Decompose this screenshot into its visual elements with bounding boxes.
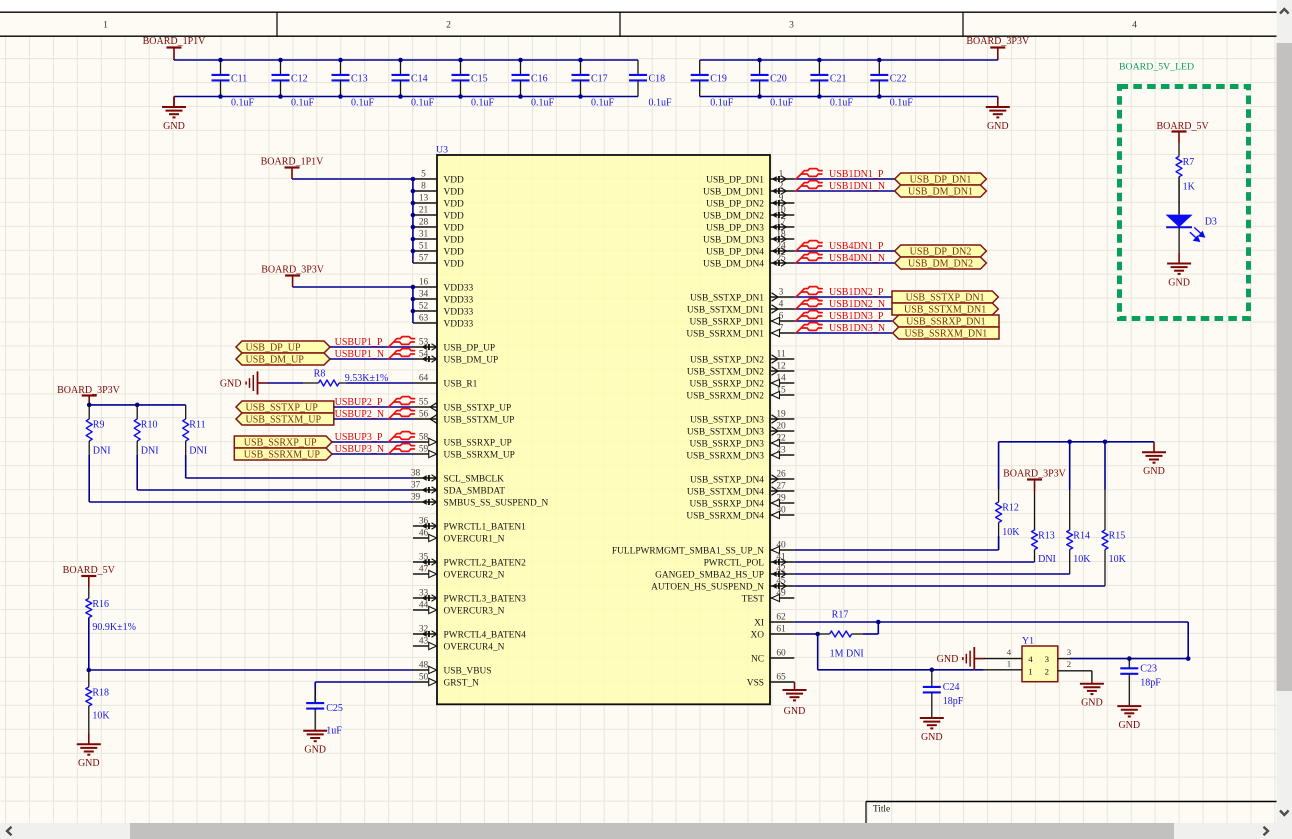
svg-text:USB1DN1_P: USB1DN1_P (829, 169, 884, 180)
net label USBUP1_N (335, 349, 384, 360)
diff pair marker USB1DN3_N (796, 323, 822, 333)
wire top rail cap bank 2 (700, 59, 998, 60)
power port BOARD_3P3V (U3 VDD33) (285, 276, 300, 288)
dashed section box BOARD_5V_LED (1120, 87, 1249, 319)
crystal Y1 (1022, 635, 1058, 681)
svg-text:BOARD_5V_LED: BOARD_5V_LED (1119, 62, 1194, 73)
svg-text:52: 52 (419, 301, 429, 311)
junction dots C20 (757, 58, 762, 99)
svg-text:GANGED_SMBA2_HS_UP: GANGED_SMBA2_HS_UP (655, 570, 764, 580)
svg-text:VSS: VSS (747, 678, 764, 688)
net label USB4DN1_P (829, 241, 884, 252)
svg-text:USB_SSRXM_DN1: USB_SSRXM_DN1 (904, 328, 987, 339)
svg-text:PWRCTL4_BATEN4: PWRCTL4_BATEN4 (444, 630, 527, 640)
port USB_SSRXP_UP (234, 436, 332, 448)
pin 1 USB_DP_DN1 (U3 right) (706, 169, 794, 185)
svg-text:SDA_SMBDAT: SDA_SMBDAT (444, 486, 506, 496)
svg-text:10K: 10K (1109, 554, 1127, 565)
junction dots C12 (278, 58, 283, 99)
resistor R8 9.53K (303, 369, 388, 386)
op-amp U3 body (436, 145, 770, 705)
svg-text:USB_DP_DN4: USB_DP_DN4 (706, 247, 764, 257)
svg-text:USB_SSRXP_UP: USB_SSRXP_UP (444, 438, 512, 448)
svg-text:59: 59 (419, 444, 429, 454)
ground GND (bar style, Y1 pin 4) (937, 647, 985, 670)
ground GND (cap bank 2) (986, 97, 1010, 132)
svg-text:62: 62 (776, 612, 786, 622)
pin 55 USB_SSTXP_UP (U3 left) (413, 397, 511, 413)
port USB_DP_UP (236, 341, 330, 353)
svg-text:USB_SSTXP_DN2: USB_SSTXP_DN2 (690, 355, 764, 365)
svg-text:58: 58 (419, 432, 429, 442)
resistor R9 DNI (86, 405, 110, 457)
svg-text:VDD33: VDD33 (444, 307, 474, 317)
svg-text:USBUP1_N: USBUP1_N (335, 349, 384, 360)
svg-text:26: 26 (776, 469, 786, 479)
resistor R18 10K (86, 670, 111, 744)
svg-text:C22: C22 (890, 74, 907, 85)
pin 56 USB_SSTXM_UP (U3 left) (413, 409, 514, 425)
pin 2 USB_DM_DN1 (U3 right) (703, 181, 794, 197)
pin 41 PWRCTL_POL (U3 right) (704, 552, 795, 568)
diff pair marker USB4DN1_P (796, 241, 822, 251)
svg-text:R15: R15 (1109, 531, 1126, 542)
junction dots C22 (877, 58, 882, 99)
svg-text:XO: XO (750, 630, 764, 640)
pin 45 AUTOEN_HS_SUSPEND_N (U3 right) (651, 576, 794, 592)
pin 53 USB_DP_UP (U3 left) (413, 337, 495, 353)
svg-text:C18: C18 (649, 74, 666, 85)
power port BOARD_3P3V (strap R13) (1027, 480, 1042, 492)
svg-text:GND: GND (784, 706, 806, 717)
svg-text:0.1uF: 0.1uF (291, 98, 315, 109)
svg-text:USB_SSTXM_UP: USB_SSTXM_UP (246, 414, 322, 425)
junction dots C14 (398, 58, 403, 99)
diff pair marker USB1DN3_P (796, 311, 822, 321)
wire USB1DN2_P (794, 296, 892, 298)
diff pair marker USB1DN1_P (796, 169, 822, 179)
net label USB1DN3_P (829, 311, 884, 322)
svg-text:USB_DM_DN4: USB_DM_DN4 (703, 259, 764, 269)
capacitor C15 0.1uF (452, 60, 495, 109)
wire R16 to USB_VBUS pin 48 (89, 618, 413, 670)
pin 48 USB_VBUS (U3 left) (413, 660, 491, 676)
wire bottom rail cap bank 2 (700, 96, 998, 98)
resistor R15 10K (1102, 490, 1127, 587)
svg-text:21: 21 (419, 205, 429, 215)
wire strap top rail to GND (999, 442, 1154, 490)
pin 13 VDD (U3 left) (413, 193, 464, 209)
pin 14 USB_SSRXP_DN2 (U3 right) (689, 373, 794, 389)
pin 63 VDD33 (U3 left) (413, 313, 473, 329)
title block (866, 802, 1277, 824)
svg-text:USB_DP_DN2: USB_DP_DN2 (706, 199, 764, 209)
svg-text:VDD33: VDD33 (444, 319, 474, 329)
svg-text:C14: C14 (411, 74, 428, 85)
svg-text:BOARD_5V: BOARD_5V (1156, 121, 1209, 132)
power port BOARD_3P3V (top-right) (966, 36, 1030, 59)
svg-text:PWRCTL_POL: PWRCTL_POL (704, 558, 765, 568)
wire BOARD_3P3V pullup rail (89, 404, 186, 406)
svg-text:BOARD_3P3V: BOARD_3P3V (57, 385, 121, 396)
svg-text:USB_DM_DN2: USB_DM_DN2 (908, 258, 973, 269)
svg-text:SCL_SMBCLK: SCL_SMBCLK (444, 474, 505, 484)
net label USB1DN2_P (829, 287, 884, 298)
svg-text:1K: 1K (1183, 181, 1196, 192)
svg-text:VDD33: VDD33 (444, 283, 474, 293)
pin 5 VDD (U3 left) (413, 169, 464, 185)
svg-text:10K: 10K (1073, 554, 1091, 565)
net label USBUP1_P (335, 337, 383, 348)
diff pair marker USB1DN2_P (796, 287, 822, 297)
svg-text:SMBUS_SS_SUSPEND_N: SMBUS_SS_SUSPEND_N (444, 498, 549, 508)
pin 50 GRST_N (U3 left) (413, 672, 479, 688)
svg-text:1uF: 1uF (326, 726, 342, 737)
svg-text:USBUP1_P: USBUP1_P (335, 337, 383, 348)
junction dots C13 (338, 58, 343, 99)
junction dots C16 (518, 58, 523, 99)
svg-text:16: 16 (419, 277, 429, 287)
svg-text:63: 63 (419, 313, 429, 323)
pin 22 USB_SSRXP_DN3 (U3 right) (689, 433, 794, 449)
wire USB4DN1_P (794, 250, 894, 252)
junction dots C15 (458, 58, 463, 99)
svg-text:VDD: VDD (444, 187, 465, 197)
pin 37 SDA_SMBDAT (U3 left) (411, 480, 505, 496)
ground GND (VSS pin 65) (783, 682, 807, 717)
svg-text:2: 2 (446, 20, 451, 31)
wire R13 to pin 41 (794, 561, 1034, 563)
pin 6 USB_SSRXP_DN1 (U3 right) (689, 311, 794, 327)
svg-text:USB_SSTXM_DN1: USB_SSTXM_DN1 (687, 305, 764, 315)
svg-text:USB_DM_UP: USB_DM_UP (246, 354, 305, 365)
svg-text:D3: D3 (1205, 217, 1217, 228)
svg-text:18pF: 18pF (1140, 677, 1161, 688)
capacitor C24 18pF (923, 670, 964, 718)
port USB_SSRXM_DN1 (893, 327, 999, 339)
svg-text:R11: R11 (189, 420, 205, 431)
svg-text:10K: 10K (1002, 527, 1020, 538)
svg-text:USB_SSTXM_DN4: USB_SSTXM_DN4 (687, 487, 764, 497)
svg-text:3: 3 (779, 287, 784, 297)
svg-text:GND: GND (987, 121, 1009, 132)
svg-text:27: 27 (776, 481, 786, 491)
wire R11 to SCL_SMBCLK (186, 455, 413, 478)
ground GND (C24) (920, 718, 944, 743)
capacitor C21 0.1uF (810, 60, 853, 109)
svg-text:C16: C16 (531, 74, 548, 85)
resistor R17 1M DNI (818, 610, 864, 660)
resistor R11 DNI (183, 405, 207, 457)
svg-text:USB_DM_DN3: USB_DM_DN3 (703, 235, 764, 245)
section label BOARD_5V_LED (1119, 62, 1194, 73)
port USB_DP_DN1 (895, 173, 987, 185)
junction dots C17 (578, 58, 583, 99)
pin 3 Y1 (1058, 647, 1130, 658)
resistor R14 10K (1067, 490, 1092, 575)
svg-text:R10: R10 (141, 420, 158, 431)
pin 47 OVERCUR2_N (U3 left) (413, 564, 505, 580)
svg-text:4: 4 (1028, 654, 1033, 664)
port USB_SSRXP_DN1 (893, 315, 999, 327)
svg-text:USB_DM_DN1: USB_DM_DN1 (908, 186, 973, 197)
svg-text:0.1uF: 0.1uF (890, 98, 914, 109)
svg-text:GND: GND (1143, 466, 1165, 477)
pin 28 VDD (U3 left) (413, 217, 464, 233)
svg-text:USB_DM_DN2: USB_DM_DN2 (703, 211, 764, 221)
svg-text:USB_SSRXP_DN1: USB_SSRXP_DN1 (689, 317, 764, 327)
wire USBUP2_P (334, 406, 413, 408)
svg-text:DNI: DNI (93, 446, 111, 457)
svg-text:46: 46 (419, 528, 429, 538)
svg-text:R16: R16 (92, 599, 109, 610)
svg-text:11: 11 (776, 349, 785, 359)
capacitor C25 1uF (306, 688, 343, 737)
wire R14 to pin 42 (794, 573, 1069, 575)
pin 38 SCL_SMBCLK (U3 left) (411, 468, 504, 484)
svg-text:USB_SSTXP_UP: USB_SSTXP_UP (444, 403, 512, 413)
svg-text:VDD33: VDD33 (444, 295, 474, 305)
pin 32 PWRCTL4_BATEN4 (U3 left) (413, 624, 526, 640)
pin 23 USB_SSRXM_DN3 (U3 right) (686, 445, 794, 461)
svg-text:10K: 10K (92, 711, 110, 722)
capacitor C11 0.1uF (212, 60, 255, 109)
resistor R10 DNI (134, 405, 158, 457)
wire GRST_N to C25 (315, 682, 413, 703)
svg-text:44: 44 (419, 600, 429, 610)
svg-text:0.1uF: 0.1uF (649, 98, 673, 109)
wire USBUP1_P (330, 346, 413, 348)
svg-text:USB_DP_DN1: USB_DP_DN1 (910, 174, 972, 185)
ground GND (C23) (1117, 706, 1141, 731)
pin 42 GANGED_SMBA2_HS_UP (U3 right) (655, 564, 794, 580)
svg-text:PWRCTL2_BATEN2: PWRCTL2_BATEN2 (444, 558, 527, 568)
port USB_SSTXP_UP (236, 401, 334, 413)
pin 3 USB_SSTXP_DN1 (U3 right) (690, 287, 794, 303)
pin 2 Y1 (1058, 659, 1092, 682)
junction dots C11 (218, 58, 223, 99)
svg-text:GND: GND (78, 758, 100, 769)
svg-text:C12: C12 (291, 74, 308, 85)
diode D3 LED (1166, 177, 1217, 241)
wire BOARD_3P3V to VDD33 bus (293, 287, 413, 323)
pin 54 USB_DM_UP (U3 left) (413, 349, 498, 365)
svg-text:USBUP3_P: USBUP3_P (335, 432, 383, 443)
svg-text:BOARD_3P3V: BOARD_3P3V (261, 265, 325, 276)
svg-text:Y1: Y1 (1022, 635, 1034, 646)
pin 60 NC (U3 right) (751, 648, 794, 664)
svg-text:VDD: VDD (444, 199, 465, 209)
port USB_SSRXM_UP (234, 448, 332, 460)
wire USB1DN2_N (794, 308, 892, 310)
svg-text:50: 50 (419, 672, 429, 682)
svg-text:GND: GND (921, 732, 943, 743)
svg-text:GRST_N: GRST_N (444, 678, 480, 688)
capacitor C22 0.1uF (870, 60, 913, 109)
pin 46 OVERCUR1_N (U3 left) (413, 528, 505, 544)
wire USB1DN1_N (794, 190, 894, 192)
pin 25 USB_DM_DN4 (U3 right) (703, 253, 794, 269)
wire XO net (794, 622, 984, 670)
pin 4 USB_SSTXM_DN1 (U3 right) (687, 299, 794, 315)
svg-text:OVERCUR2_N: OVERCUR2_N (444, 570, 505, 580)
svg-text:USB_R1: USB_R1 (444, 379, 478, 389)
pin 10 USB_DM_DN2 (U3 right) (703, 205, 794, 221)
svg-text:USB_SSRXP_DN1: USB_SSRXP_DN1 (906, 316, 985, 327)
svg-text:USB_SSTXP_DN1: USB_SSTXP_DN1 (690, 293, 764, 303)
svg-text:C13: C13 (351, 74, 368, 85)
junction dot C23 (1127, 656, 1132, 661)
svg-text:USB_SSRXP_UP: USB_SSRXP_UP (244, 437, 317, 448)
svg-text:61: 61 (776, 624, 786, 634)
svg-text:5: 5 (421, 169, 426, 179)
svg-text:USBUP2_P: USBUP2_P (335, 397, 383, 408)
ground GND (C25) (303, 730, 327, 755)
port USB_DM_DN2 (895, 257, 987, 269)
svg-text:51: 51 (419, 241, 429, 251)
svg-text:R8: R8 (314, 369, 326, 380)
power port BOARD_5V (divider) (81, 576, 96, 588)
svg-text:VDD: VDD (444, 223, 465, 233)
pin 64 USB_R1 (U3 left) (413, 373, 478, 389)
svg-text:R9: R9 (93, 420, 105, 431)
svg-text:19: 19 (776, 409, 786, 419)
junction dots XI net (876, 620, 1190, 661)
wire R10 to SDA_SMBDAT (137, 455, 413, 490)
capacitor C18 0.1uF (629, 60, 672, 109)
svg-text:VDD: VDD (444, 247, 465, 257)
svg-text:C23: C23 (1140, 664, 1157, 675)
svg-text:48: 48 (419, 660, 429, 670)
capacitor C20 0.1uF (751, 60, 794, 109)
svg-text:R18: R18 (92, 688, 109, 699)
ground GND (bar style, R8) (220, 371, 268, 394)
svg-text:USB1DN3_N: USB1DN3_N (829, 323, 885, 334)
wire USBUP3_P (332, 441, 413, 443)
net label USBUP2_P (335, 397, 383, 408)
svg-text:C11: C11 (231, 74, 247, 85)
svg-text:USB_DM_UP: USB_DM_UP (444, 355, 499, 365)
svg-text:3: 3 (1067, 647, 1072, 657)
svg-text:USB_SSRXM_DN4: USB_SSRXM_DN4 (686, 511, 764, 521)
svg-text:TEST: TEST (742, 594, 765, 604)
diff pair marker USBUP3_N (388, 444, 414, 454)
svg-text:PWRCTL3_BATEN3: PWRCTL3_BATEN3 (444, 594, 527, 604)
svg-text:USB_SSTXM_UP: USB_SSTXM_UP (444, 415, 515, 425)
svg-text:8: 8 (421, 181, 426, 191)
pin 9 USB_DP_DN2 (U3 right) (706, 193, 794, 209)
svg-text:USB1DN3_P: USB1DN3_P (829, 311, 884, 322)
power port BOARD_3P3V (SMBus pullups) (82, 396, 97, 408)
ground GND (R18) (77, 734, 101, 769)
pin 17 USB_DP_DN3 (U3 right) (706, 217, 794, 233)
svg-text:C25: C25 (326, 703, 343, 714)
capacitor C14 0.1uF (392, 60, 435, 109)
junction dots pullup rail (87, 403, 140, 408)
svg-text:GND: GND (1118, 720, 1140, 731)
diff pair marker USB1DN1_N (796, 181, 822, 191)
svg-text:USB_SSTXP_DN3: USB_SSTXP_DN3 (690, 415, 764, 425)
svg-text:USB_SSRXM_DN1: USB_SSRXM_DN1 (686, 329, 764, 339)
pin 43 OVERCUR4_N (U3 left) (413, 636, 505, 652)
wire R12 to pin 40 (794, 536, 998, 550)
net label USB1DN1_P (829, 169, 884, 180)
svg-text:BOARD_1P1V: BOARD_1P1V (143, 36, 207, 47)
resistor R16 90.9K (86, 588, 136, 670)
svg-text:47: 47 (419, 564, 429, 574)
pin 62 XI (U3 right) (754, 612, 794, 628)
junction dots C21 (817, 58, 822, 99)
svg-text:USB_SSRXP_DN3: USB_SSRXP_DN3 (689, 439, 764, 449)
net label USB4DN1_N (829, 253, 885, 264)
svg-text:GND: GND (1168, 277, 1190, 288)
svg-text:0.1uF: 0.1uF (710, 98, 734, 109)
svg-text:37: 37 (411, 480, 421, 490)
svg-text:C17: C17 (591, 74, 608, 85)
wire USBUP3_N (332, 453, 413, 455)
junction dots strap rail (1067, 440, 1107, 445)
capacitor C16 0.1uF (512, 60, 555, 109)
pin 35 PWRCTL2_BATEN2 (U3 left) (413, 552, 526, 568)
pin 26 USB_SSTXP_DN4 (U3 right) (690, 469, 794, 485)
svg-text:GND: GND (1081, 698, 1103, 709)
net label USB1DN3_N (829, 323, 885, 334)
pin 65 VSS (U3 right) (747, 672, 795, 688)
svg-text:90.9K±1%: 90.9K±1% (92, 622, 136, 633)
svg-text:OVERCUR1_N: OVERCUR1_N (444, 534, 505, 544)
pin 30 USB_SSRXM_DN4 (U3 right) (686, 505, 794, 521)
svg-text:DNI: DNI (189, 446, 207, 457)
svg-text:C15: C15 (471, 74, 488, 85)
svg-text:U3: U3 (436, 145, 448, 156)
svg-text:XI: XI (754, 618, 764, 628)
pin 51 VDD (U3 left) (413, 241, 464, 257)
svg-text:USBUP2_N: USBUP2_N (335, 409, 384, 420)
svg-text:GND: GND (220, 378, 242, 389)
svg-text:BOARD_1P1V: BOARD_1P1V (261, 157, 325, 168)
diff pair marker USBUP3_P (388, 432, 414, 442)
port USB_SSTXP_DN1 (892, 291, 998, 303)
svg-text:USB_SSRXM_DN3: USB_SSRXM_DN3 (686, 451, 764, 461)
svg-text:FULLPWRMGMT_SMBA1_SS_UP_N: FULLPWRMGMT_SMBA1_SS_UP_N (612, 546, 764, 556)
capacitor C23 18pF (1120, 659, 1161, 706)
svg-text:1: 1 (103, 20, 108, 31)
svg-text:USB_DM_DN1: USB_DM_DN1 (703, 187, 764, 197)
resistor R13 DNI (1032, 491, 1056, 565)
pin 7 USB_SSRXM_DN1 (U3 right) (686, 323, 794, 339)
svg-text:0.1uF: 0.1uF (411, 98, 435, 109)
svg-text:60: 60 (776, 648, 786, 658)
diff pair marker USBUP2_P (388, 397, 414, 407)
wire USB1DN3_N (794, 332, 892, 334)
svg-text:43: 43 (419, 636, 429, 646)
power port BOARD_1P1V (top-left) (143, 36, 207, 59)
svg-text:USB_SSTXM_DN3: USB_SSTXM_DN3 (687, 427, 764, 437)
svg-text:18pF: 18pF (943, 696, 964, 707)
svg-text:DNI: DNI (1038, 554, 1056, 565)
svg-text:R14: R14 (1073, 531, 1090, 542)
net label USB1DN2_N (829, 299, 885, 310)
svg-text:64: 64 (419, 373, 429, 383)
svg-text:USB_SSRXM_UP: USB_SSRXM_UP (444, 450, 515, 460)
svg-text:USB_SSTXM_DN2: USB_SSTXM_DN2 (687, 367, 764, 377)
net label USBUP2_N (335, 409, 384, 420)
port USB_SSTXM_DN1 (892, 303, 998, 315)
net label USBUP3_P (335, 432, 383, 443)
pin 52 VDD33 (U3 left) (413, 301, 473, 317)
svg-text:4: 4 (779, 299, 784, 309)
diff pair marker USBUP1_N (388, 349, 414, 359)
